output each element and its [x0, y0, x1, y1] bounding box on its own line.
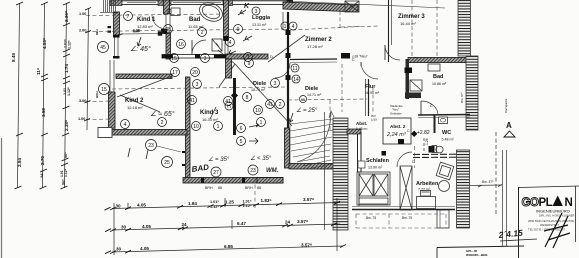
svg-text:45: 45	[100, 45, 106, 51]
bathtub	[196, 0, 225, 25]
svg-text:1.12⁵: 1.12⁵	[243, 204, 252, 208]
svg-text:11.65 m²: 11.65 m²	[188, 24, 204, 29]
dim chain 8.49	[18, 3, 20, 188]
svg-text:Bm. 87⁵: Bm. 87⁵	[460, 91, 464, 103]
svg-text:89H: 89H	[95, 29, 99, 35]
svg-text:1.01⁵: 1.01⁵	[243, 199, 252, 203]
bottom wall Kind2/Kind3 band	[183, 178, 283, 184]
svg-text:9: 9	[248, 61, 251, 67]
stair top-left corner	[100, 0, 118, 13]
ticks row3	[105, 245, 346, 254]
svg-text:INGENIEURBÜRO: INGENIEURBÜRO	[536, 209, 570, 214]
svg-text:30: 30	[116, 247, 122, 252]
dash flur v	[341, 64, 343, 112]
svg-text:∠ ≈ 65°: ∠ ≈ 65°	[150, 110, 175, 118]
svg-text:1: 1	[217, 124, 220, 130]
svg-text:3: 3	[274, 81, 277, 87]
svg-text:1.12⁵: 1.12⁵	[210, 205, 219, 209]
svg-text:C: C	[407, 129, 410, 133]
svg-text:N: N	[565, 197, 573, 209]
svg-text:16: 16	[178, 42, 184, 48]
svg-text:12.83 m²: 12.83 m²	[137, 24, 153, 29]
svg-text:23: 23	[148, 143, 154, 149]
furniture	[168, 0, 454, 210]
roof slope diagonals Diele	[117, 35, 305, 126]
dash 1.00 top	[86, 14, 225, 16]
Zimmer2 south wall with p18 box	[290, 58, 337, 61]
dim line inside Kind1	[119, 15, 166, 36]
title block frame	[518, 187, 520, 258]
svg-text:Bm. 75: Bm. 75	[366, 216, 376, 220]
circled position numbers	[98, 7, 307, 177]
svg-text:10: 10	[193, 124, 199, 130]
stair flight down long strip	[333, 118, 348, 230]
chair Arbeiten	[436, 162, 454, 180]
Abst.2 room box	[383, 118, 411, 144]
dash zimmer3 h	[341, 26, 380, 27]
svg-text:20: 20	[192, 70, 198, 76]
svg-text:18.79 m²: 18.79 m²	[251, 88, 266, 92]
room labels	[125, 14, 515, 220]
svg-text:96⁸: 96⁸	[62, 179, 66, 185]
svg-text:5.48 m²: 5.48 m²	[442, 138, 455, 142]
gauben side lines right	[470, 132, 507, 246]
svg-text:10.86 m²: 10.86 m²	[432, 82, 447, 86]
hw arrows loggia	[238, 10, 246, 15]
sinks Bad right	[428, 64, 440, 71]
south wall of right wing	[352, 209, 455, 211]
wing wall at Flur top	[408, 58, 470, 63]
wall interior vertical between stair/Kind1 and Bad	[164, 0, 170, 14]
svg-text:1.12⁸: 1.12⁸	[68, 40, 72, 49]
svg-text:3.57⁸: 3.57⁸	[303, 197, 314, 202]
eaves strip right upper	[458, 0, 471, 56]
dim chain 2.36/1.74/2.38	[65, 3, 67, 188]
svg-text:4: 4	[292, 24, 295, 30]
svg-text:8.49: 8.49	[11, 53, 16, 62]
svg-text:11: 11	[292, 66, 297, 72]
svg-text:15: 15	[171, 56, 177, 62]
dim row3 line	[112, 246, 343, 252]
svg-text:1.45 m²: 1.45 m²	[356, 127, 368, 131]
dim row2 line	[112, 224, 340, 230]
svg-text:1.74: 1.74	[64, 64, 69, 73]
Flur left wall	[368, 79, 370, 116]
dash zimmer3 v1	[411, 0, 413, 57]
svg-text:8: 8	[246, 95, 249, 101]
svg-text:4.53⁸: 4.53⁸	[42, 38, 47, 49]
dash diele2 v	[329, 100, 331, 130]
svg-text:1.84: 1.84	[188, 201, 197, 206]
dim chain 4.53/3.50/2.70	[43, 3, 45, 188]
door Bad right	[421, 101, 438, 115]
hw arrow kind3	[210, 107, 216, 119]
wall divider Zimmer2/Zimmer3	[388, 0, 390, 62]
svg-text:5: 5	[240, 139, 243, 145]
dim chain inner 1.00/2.00	[87, 8, 89, 130]
svg-text:6.47: 6.47	[237, 221, 246, 226]
svg-text:2.00: 2.00	[79, 29, 86, 33]
svg-text:6.85: 6.85	[224, 244, 233, 249]
title block text lines	[528, 209, 575, 232]
svg-text:2: 2	[161, 120, 164, 126]
ticks chains	[15, 2, 24, 189]
dash 3.00	[86, 100, 112, 103]
svg-text:Diele: Diele	[253, 81, 266, 87]
svg-text:WC: WC	[442, 130, 451, 136]
svg-text:Zimmer 2: Zimmer 2	[305, 37, 332, 43]
stair core walls	[285, 128, 290, 168]
svg-text:25: 25	[164, 160, 170, 166]
svg-text:13.90 m²: 13.90 m²	[368, 166, 383, 170]
svg-text:Diele: Diele	[305, 86, 318, 92]
svg-text:9: 9	[237, 27, 240, 33]
svg-text:3.57⁸: 3.57⁸	[301, 242, 312, 247]
Bad top bottom wall	[162, 55, 226, 59]
dim row1 line	[112, 203, 340, 209]
svg-text:∠: 45°: ∠: 45°	[130, 45, 151, 53]
dash kind3 v	[254, 178, 256, 210]
ticks row1	[105, 201, 341, 210]
eaves strip right lower	[457, 150, 470, 228]
svg-text:48: 48	[165, 27, 171, 33]
svg-text:Geländer: Geländer	[390, 112, 402, 116]
svg-text:2.38⁸: 2.38⁸	[64, 120, 69, 131]
svg-text:14.71 m²: 14.71 m²	[307, 93, 322, 97]
svg-text:1: 1	[284, 24, 287, 30]
Schlafen walls	[358, 133, 362, 172]
wardrobe	[400, 166, 412, 210]
svg-text:Dachgaube: Dachgaube	[504, 98, 508, 113]
svg-text:Zimmer 3: Zimmer 3	[398, 14, 425, 20]
wall right of Bad top	[224, 0, 229, 40]
winder stair treads	[290, 119, 333, 168]
svg-text:Bad: Bad	[433, 74, 443, 80]
svg-text:4: 4	[124, 122, 127, 128]
bed Schlafen	[357, 172, 390, 205]
svg-text:WM.: WM.	[266, 168, 279, 174]
svg-text:Bm. 75: Bm. 75	[402, 216, 412, 220]
legend box bottom	[437, 246, 524, 248]
GOPLAN logo	[522, 196, 573, 210]
dash zimmer2	[292, 27, 360, 31]
Loggia south hatched wall	[226, 54, 268, 59]
loggia railing top band	[283, 2, 358, 12]
svg-text:6: 6	[240, 126, 243, 132]
dash 2.00	[86, 29, 283, 32]
svg-text:23: 23	[250, 168, 256, 174]
svg-text:4.05: 4.05	[140, 246, 149, 251]
left dimension chains	[18, 3, 89, 188]
svg-text:C: C	[352, 58, 355, 62]
svg-text:1.12⁸: 1.12⁸	[67, 87, 71, 96]
svg-text:DIPL.-ING. HORST KLENNER: DIPL.-ING. HORST KLENNER	[539, 214, 575, 218]
svg-text:BRH: BRH	[95, 92, 99, 99]
svg-text:3.57⁸: 3.57⁸	[297, 219, 308, 224]
svg-text:+2.82: +2.82	[417, 130, 430, 136]
stair walk line	[297, 112, 331, 162]
svg-text:88: 88	[257, 186, 261, 190]
svg-text:88: 88	[218, 186, 222, 190]
door Zimmer3	[385, 45, 400, 60]
svg-text:15: 15	[101, 87, 107, 93]
dash zimmer3 v2	[436, 0, 438, 57]
wall left exterior lower (Kind 2)	[109, 92, 116, 134]
svg-text:D: D	[270, 54, 273, 59]
svg-text:11⁸: 11⁸	[36, 68, 41, 75]
leader line circle 23	[157, 146, 181, 152]
svg-text:3: 3	[204, 56, 207, 62]
svg-text:1: 1	[260, 120, 263, 126]
svg-text:2.84: 2.84	[17, 158, 22, 167]
hw arrow kind1	[137, 37, 141, 46]
dash below beds box	[356, 214, 446, 228]
scan left edge line	[1, 138, 3, 258]
svg-text:4.05: 4.05	[137, 202, 146, 207]
svg-text:3: 3	[255, 9, 258, 15]
svg-text:1.26: 1.26	[425, 138, 429, 145]
eaves strip right mid	[466, 56, 478, 130]
hw arrow diele	[289, 113, 293, 122]
dash partition arbeiten	[414, 146, 416, 168]
svg-text:12.18 m²: 12.18 m²	[127, 105, 143, 110]
svg-text:1/10: 1/10	[371, 118, 377, 122]
svg-text:4.05: 4.05	[142, 224, 151, 229]
svg-text:Kind 2: Kind 2	[125, 98, 144, 104]
svg-text:1.00: 1.00	[78, 117, 85, 121]
dash mid kind	[112, 87, 285, 89]
svg-text:24: 24	[182, 222, 188, 227]
svg-text:14: 14	[293, 77, 299, 83]
svg-text:1.00: 1.00	[79, 12, 86, 16]
svg-text:41: 41	[267, 102, 273, 108]
hw arrows circles 6 5	[249, 123, 259, 144]
svg-text:10: 10	[255, 108, 261, 114]
window sill marks left wall	[108, 26, 112, 28]
Loggia left wall lower	[226, 59, 232, 78]
svg-text:Kind 1: Kind 1	[137, 17, 156, 23]
window left upper	[114, 37, 116, 57]
svg-text:2: 2	[201, 30, 204, 36]
svg-text:17: 17	[172, 70, 178, 76]
svg-text:4: 4	[229, 40, 232, 46]
wall left exterior upper	[114, 12, 120, 35]
toilet WC	[432, 146, 437, 153]
title block	[437, 186, 579, 258]
svg-text:1.25: 1.25	[225, 200, 234, 205]
desk	[417, 197, 436, 209]
svg-text:H: H	[227, 104, 231, 110]
svg-text:30: 30	[121, 225, 127, 230]
svg-text:27: 27	[213, 170, 219, 176]
hw signature	[544, 213, 570, 248]
Bad right walls	[406, 59, 410, 99]
svg-text:16.90 m²: 16.90 m²	[365, 91, 380, 95]
svg-text:Loggia: Loggia	[252, 15, 271, 21]
svg-text:GO: GO	[522, 197, 539, 209]
svg-text:p18 "Neu": p18 "Neu"	[353, 55, 369, 59]
svg-text:BRH: BRH	[205, 186, 213, 190]
svg-text:Flur: Flur	[365, 84, 376, 90]
svg-text:30: 30	[116, 203, 122, 208]
svg-text:7: 7	[127, 14, 130, 20]
svg-text:41: 41	[189, 98, 195, 104]
svg-text:24: 24	[39, 173, 44, 178]
wall bar Kind3/Diele	[233, 78, 236, 135]
svg-text:WOHNFL.-BER.: WOHNFL.-BER.	[466, 253, 488, 257]
hw arrows bottom kind2	[128, 148, 148, 159]
door arc Diele/Zimmer2	[275, 63, 290, 78]
svg-text:PL: PL	[539, 197, 553, 209]
svg-text:∠ < 35°: ∠ < 35°	[250, 155, 272, 162]
window X square Zimmer3 top	[345, 1, 359, 12]
svg-text:24: 24	[285, 219, 291, 224]
shower Bad top	[212, 39, 222, 51]
svg-text:17.28 m²: 17.28 m²	[307, 44, 323, 49]
svg-text:3.00: 3.00	[79, 99, 86, 103]
svg-text:96⁸: 96⁸	[64, 152, 68, 158]
guide verticals	[114, 198, 337, 255]
svg-text:13.31 m²: 13.31 m²	[252, 23, 267, 27]
svg-text:∠ = 25°: ∠ = 25°	[296, 107, 318, 114]
window gap left mid	[109, 60, 111, 92]
svg-text:2: 2	[279, 102, 282, 108]
dash 1.00 low	[86, 118, 112, 121]
svg-text:16.44 m²: 16.44 m²	[400, 21, 416, 26]
wall vertical between Kind2 and Kind3	[186, 77, 191, 179]
svg-text:2,24 m³: 2,24 m³	[386, 132, 406, 138]
svg-text:A: A	[506, 121, 512, 130]
svg-text:Abst.: Abst.	[356, 121, 367, 126]
svg-text:Kind 3: Kind 3	[200, 110, 219, 116]
svg-text:1.12⁸: 1.12⁸	[64, 168, 68, 177]
svg-text:BRH: BRH	[245, 186, 253, 190]
ticks row2	[105, 223, 337, 232]
svg-text:1.01⁵: 1.01⁵	[210, 200, 219, 204]
svg-text:∠ = 35°: ∠ = 35°	[208, 156, 230, 163]
svg-text:Bm. 37⁵: Bm. 37⁵	[482, 180, 494, 184]
svg-text:1.83⁵: 1.83⁵	[261, 198, 272, 203]
svg-text:3.50: 3.50	[41, 108, 46, 117]
bay wall bottom-left horizontal	[112, 130, 187, 136]
svg-text:Arbeiten: Arbeiten	[416, 181, 439, 187]
dashed projection lines	[86, 0, 446, 228]
central spine wall	[287, 12, 289, 128]
svg-text:2.70: 2.70	[40, 156, 45, 165]
svg-text:3: 3	[196, 82, 199, 88]
dash loggia top	[339, 8, 341, 28]
wall south of Kind1 / north of Kind2	[116, 74, 172, 79]
svg-text:Bad: Bad	[189, 17, 201, 23]
sink Bad top	[171, 8, 180, 16]
svg-text:Abst. 2: Abst. 2	[390, 124, 406, 129]
svg-text:2.36⁸: 2.36⁸	[64, 11, 69, 22]
bottom dimension chains	[112, 198, 343, 255]
door Bad top	[192, 40, 206, 54]
WC walls	[434, 115, 436, 133]
wall top exterior	[110, 0, 293, 2]
handwritten annotations	[128, 3, 406, 174]
dash diele2	[288, 99, 367, 100]
svg-text:Schlafen: Schlafen	[366, 158, 390, 164]
stool	[439, 181, 450, 192]
